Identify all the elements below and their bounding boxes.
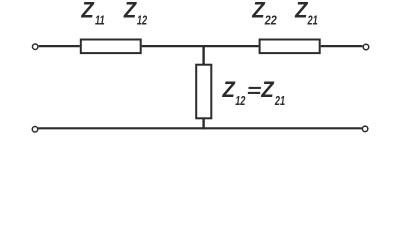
port 1 top terminal [32, 44, 38, 50]
wire Z11-Z12 box to node T [142, 45, 204, 47]
svg-text:Z: Z [260, 77, 275, 102]
svg-text:Z: Z [123, 0, 138, 23]
equals sign of Z12=Z21 (top bar) [249, 87, 261, 89]
impedance box Z22-Z21 (right series element) [260, 40, 320, 54]
svg-text:11: 11 [95, 13, 105, 28]
svg-text:Z: Z [222, 77, 237, 102]
bottom rail wire [38, 127, 362, 129]
port 1 bottom terminal [32, 127, 38, 133]
impedance box Z12=Z21 (shunt element) [196, 65, 211, 119]
wire shunt box down to bottom rail [202, 118, 204, 129]
svg-text:21: 21 [307, 13, 318, 28]
svg-text:Z: Z [80, 0, 95, 23]
port 2 bottom terminal [362, 126, 368, 132]
port 2 top terminal [363, 44, 369, 50]
svg-text:22: 22 [264, 13, 277, 28]
impedance box Z11-Z12 (left series element) [81, 40, 141, 54]
equals sign of Z12=Z21 (bottom bar) [248, 92, 260, 94]
svg-text:12: 12 [137, 13, 148, 28]
wire Z22-Z21 box to port 2 [321, 45, 363, 47]
wire node T down to shunt box [202, 45, 204, 65]
wire port1 to Z11-Z12 box [39, 45, 80, 47]
wire node T to Z22-Z21 box [204, 45, 259, 47]
svg-text:12: 12 [235, 93, 246, 108]
svg-text:21: 21 [274, 93, 285, 108]
